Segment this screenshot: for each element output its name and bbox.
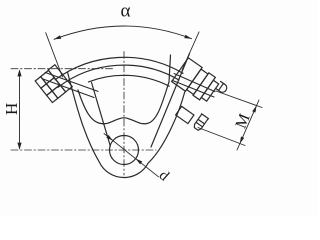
svg-text:H: H (2, 103, 21, 115)
svg-text:M: M (233, 111, 254, 131)
svg-text:α: α (121, 1, 131, 22)
svg-text:d: d (156, 167, 173, 184)
